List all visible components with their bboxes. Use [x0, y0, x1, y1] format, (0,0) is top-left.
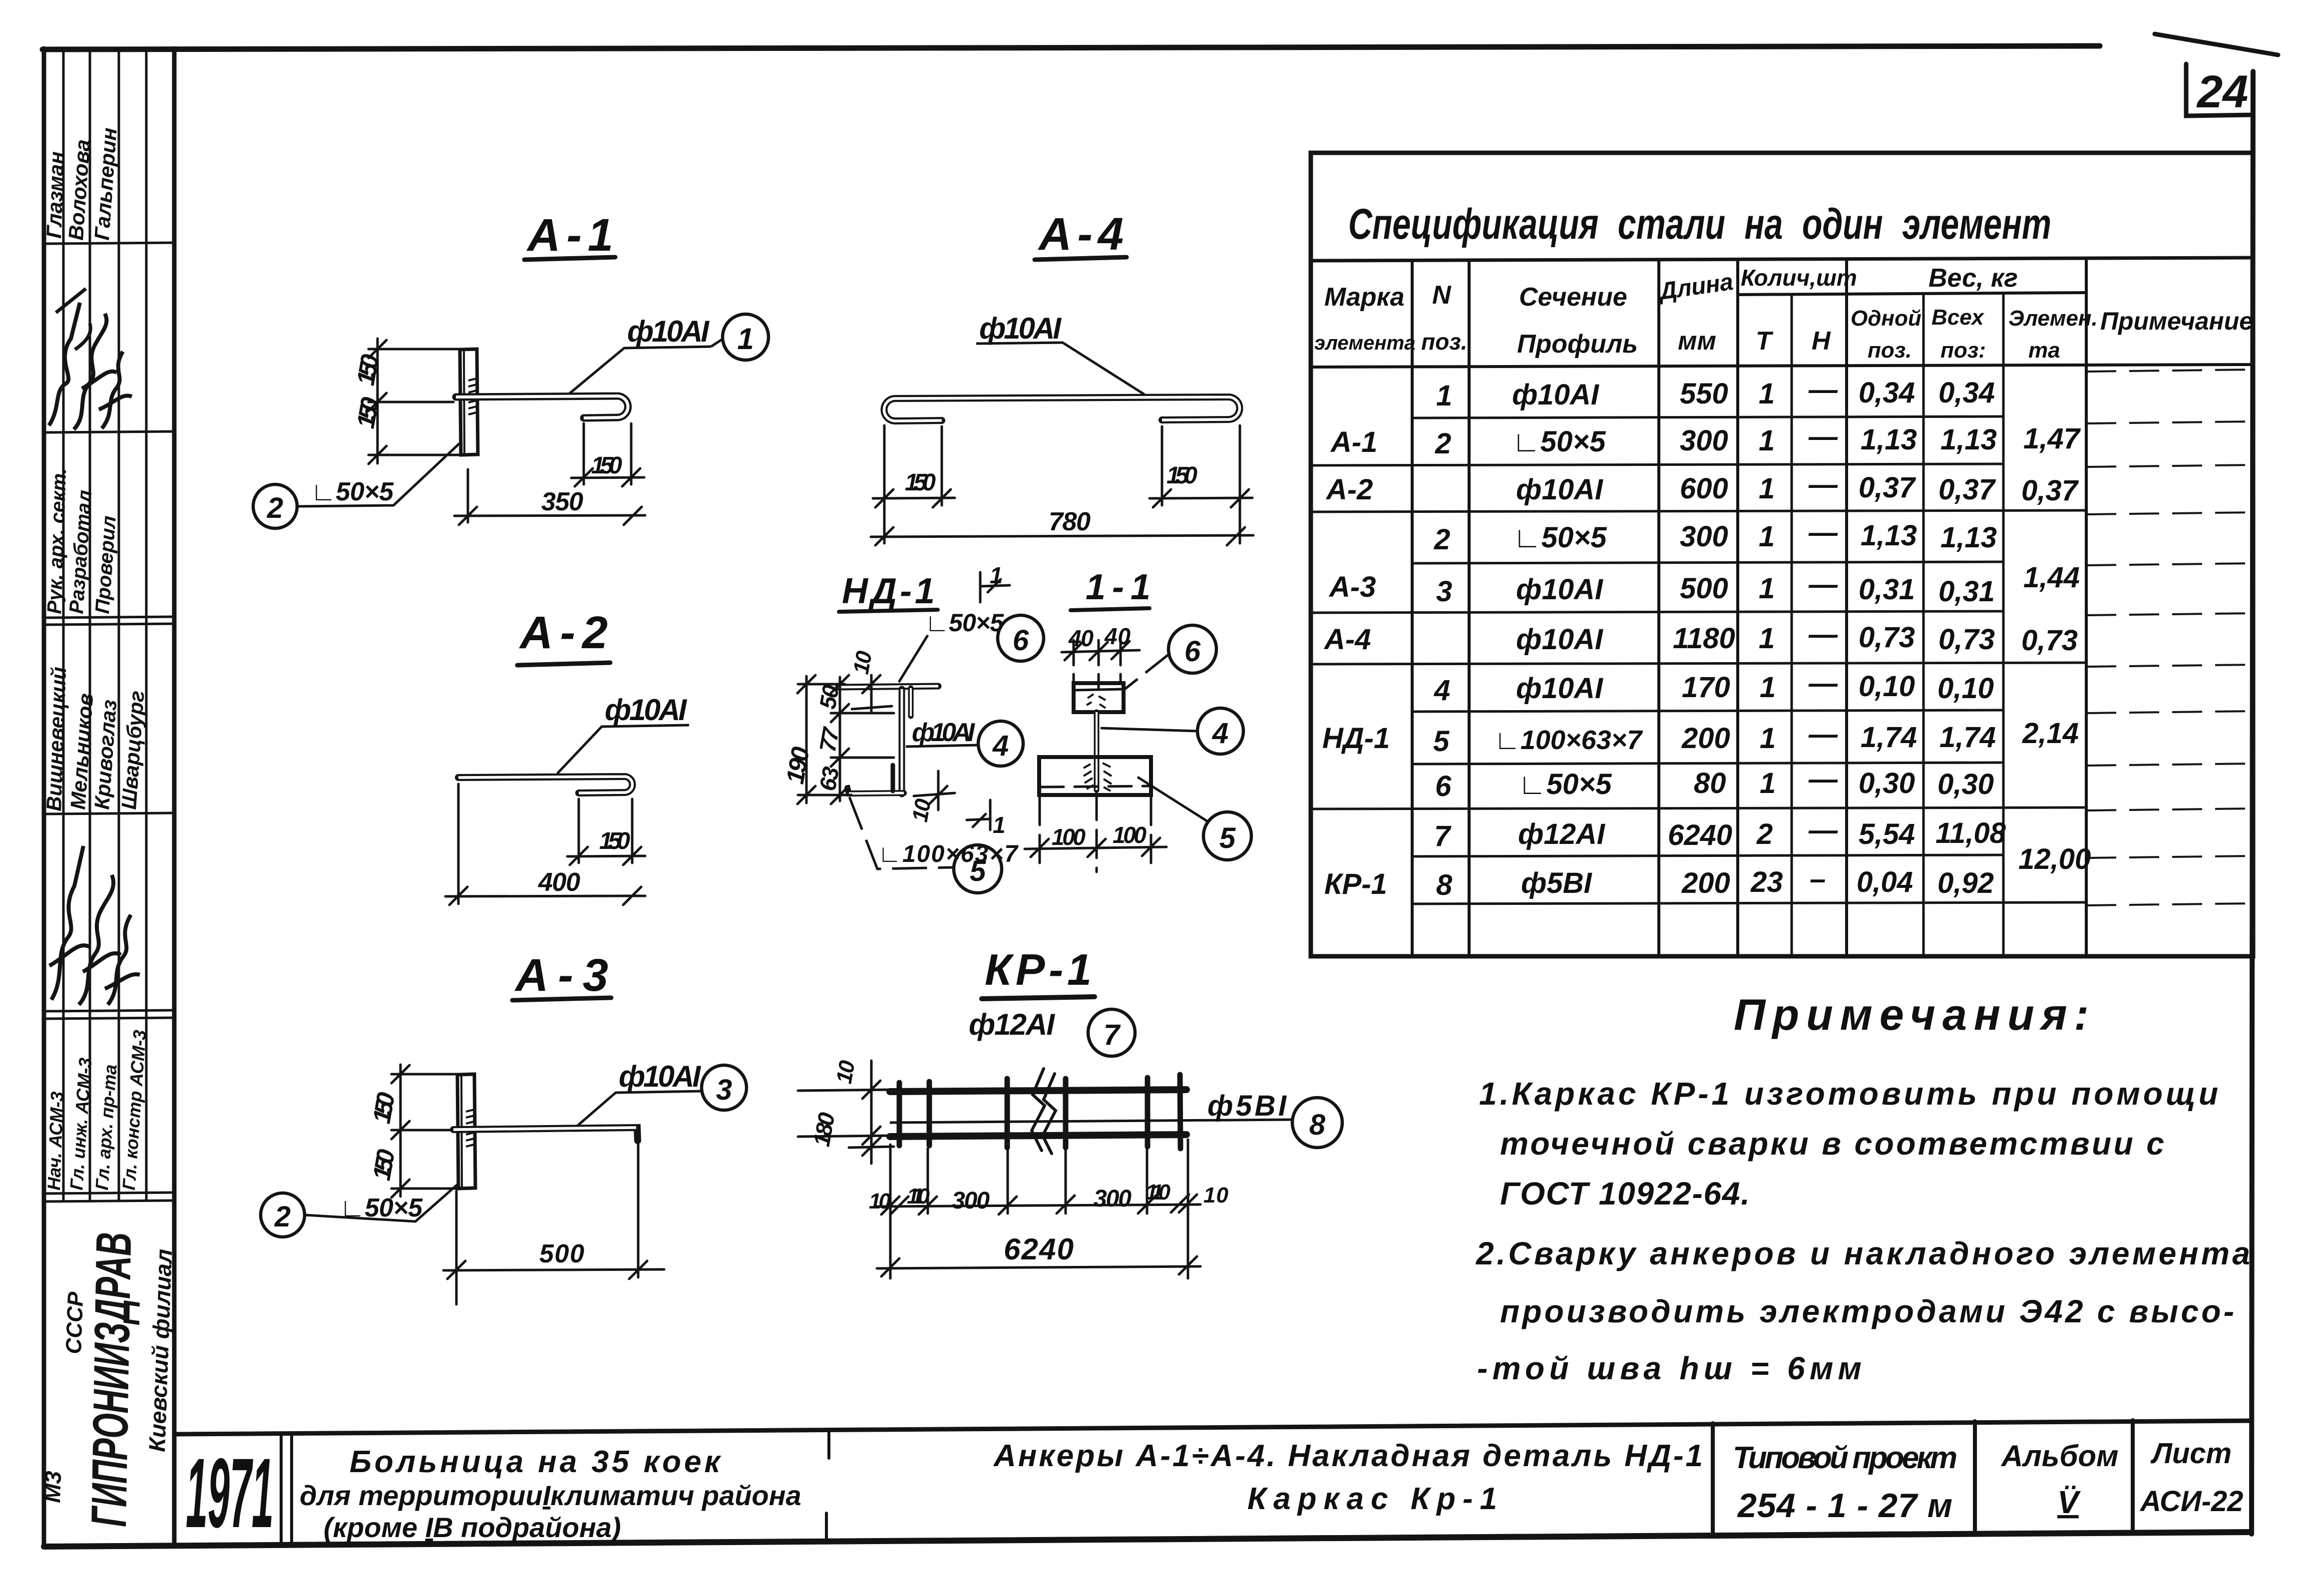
svg-text:100: 100 [1113, 822, 1147, 848]
svg-text:Спецификация стали на один эле: Спецификация стали на один элемент [1348, 200, 2051, 248]
svg-text:ф10АІ: ф10АІ [605, 693, 687, 727]
svg-text:0,37: 0,37 [1938, 473, 1996, 506]
svg-text:точечной сварки в соответст: точечной сварки в соответствии с [1500, 1126, 2164, 1162]
A-4 overall dimension 780 [871, 527, 1253, 545]
svg-text:350: 350 [541, 487, 583, 516]
sheet right border [2252, 71, 2253, 1534]
svg-text:10: 10 [908, 797, 936, 823]
svg-text:10: 10 [1203, 1183, 1229, 1207]
svg-text:6: 6 [1184, 635, 1201, 668]
svg-text:40: 40 [1104, 623, 1131, 649]
svg-text:200: 200 [1681, 867, 1730, 899]
KR-1 break symbol [1032, 1069, 1056, 1154]
svg-text:1,13: 1,13 [1940, 521, 1997, 554]
svg-text:Лист: Лист [2150, 1437, 2232, 1470]
1-1 bottom dimension 100 100 [1025, 792, 1166, 872]
svg-text:300: 300 [952, 1188, 990, 1214]
svg-text:—: — [1808, 718, 1838, 751]
ND-1 left outer dimension 190 [797, 675, 851, 804]
svg-text:—: — [1808, 618, 1838, 651]
sheet top border [42, 46, 2100, 49]
A-1 angle plate pos.2 [460, 349, 478, 455]
svg-text:500: 500 [539, 1239, 584, 1268]
left stamp column lines [44, 48, 174, 1201]
svg-text:1180: 1180 [1673, 622, 1735, 655]
svg-text:ф5ВІ: ф5ВІ [1207, 1090, 1287, 1122]
A-2 overall dimension 400 [445, 784, 645, 905]
svg-text:ф12АІ: ф12АІ [1518, 818, 1606, 850]
svg-text:7: 7 [1434, 820, 1452, 852]
svg-text:150: 150 [905, 469, 936, 496]
svg-text:10: 10 [869, 1189, 891, 1213]
ND-1 section mark top [980, 572, 1010, 602]
svg-text:2: 2 [1434, 523, 1450, 556]
A-4 right hook dimension 150 [1150, 425, 1252, 543]
svg-text:ф10АІ: ф10АІ [979, 312, 1062, 345]
svg-text:550: 550 [1680, 378, 1728, 410]
svg-text:0,73: 0,73 [2021, 624, 2078, 657]
svg-text:3: 3 [1436, 575, 1452, 608]
svg-text:1.Каркас КР-1 изготовить пр: 1.Каркас КР-1 изготовить при помощи [1479, 1076, 2218, 1112]
svg-text:0,37: 0,37 [1859, 471, 1917, 504]
1-1 position circle 5 [1203, 812, 1251, 860]
svg-text:ГОСТ 10922-64.: ГОСТ 10922-64. [1500, 1176, 1750, 1211]
svg-text:—: — [1808, 568, 1838, 601]
svg-text:10: 10 [832, 1058, 860, 1085]
svg-text:∟50×5: ∟50×5 [925, 609, 1004, 637]
title block divider Albom/List [2131, 1420, 2135, 1532]
svg-text:0,31: 0,31 [1859, 573, 1915, 606]
svg-text:150: 150 [352, 395, 384, 430]
svg-text:150: 150 [599, 828, 630, 854]
page number box 24 [2186, 64, 2253, 116]
KR-1 title underline [982, 997, 1095, 999]
svg-text:А-3: А-3 [1328, 571, 1376, 603]
sheet top-right paper edge slant [2155, 34, 2278, 55]
svg-text:А-2: А-2 [519, 607, 608, 658]
table title band bottom line [1311, 258, 2253, 261]
svg-text:Нач. АСМ-3: Нач. АСМ-3 [43, 1091, 67, 1191]
svg-text:150: 150 [368, 1147, 400, 1183]
svg-text:элемента: элемента [1314, 332, 1415, 354]
A-1 position circle 1 [723, 314, 768, 360]
svg-text:А-1: А-1 [1330, 426, 1377, 458]
A-1 weld hatch at rod joint [468, 379, 476, 414]
svg-text:40: 40 [1068, 625, 1094, 651]
KR-1 left dimension 10/180 [798, 1061, 894, 1164]
svg-text:2.Сварку анкеров и накладно: 2.Сварку анкеров и накладного элемента [1476, 1235, 2250, 1271]
stamp signatures block2 [49, 846, 140, 1005]
KR-1 position circle 7 [1088, 1009, 1135, 1056]
A-3 leader circle2 to plate [305, 1185, 457, 1221]
1-1 bottom plate pos.5 [1039, 757, 1151, 795]
svg-text:А-3: А-3 [514, 950, 608, 1001]
ND-1 top small dimension 10 [852, 675, 892, 711]
KR-1 overall dimension 6240 [877, 1256, 1200, 1276]
svg-text:(кроме ІВ подрайона): (кроме ІВ подрайона) [324, 1512, 621, 1543]
svg-text:поз.: поз. [1868, 338, 1912, 363]
svg-text:Всех: Всех [1931, 305, 1984, 330]
svg-text:ф10АІ: ф10АІ [1516, 573, 1604, 606]
KR-1 position circle 8 [1292, 1098, 1342, 1148]
svg-text:та: та [2028, 338, 2060, 363]
svg-text:1971: 1971 [186, 1438, 274, 1548]
svg-text:0,34: 0,34 [1938, 377, 1995, 409]
svg-text:0,30: 0,30 [1937, 768, 1994, 800]
ND-1 position circle 4 [978, 721, 1023, 766]
svg-text:N: N [1432, 281, 1452, 310]
svg-text:Анкеры А-1÷А-4. Накладная: Анкеры А-1÷А-4. Накладная деталь НД-1 [993, 1439, 1703, 1473]
1-1 leader circle 5 to plate [1138, 777, 1208, 822]
svg-text:150: 150 [352, 352, 384, 388]
svg-text:1,13: 1,13 [1861, 519, 1917, 552]
svg-text:V̈: V̈ [2057, 1484, 2081, 1520]
svg-text:5: 5 [970, 855, 986, 887]
svg-text:–: – [1810, 863, 1826, 895]
1-1 leader circle 6 to plate [1124, 654, 1169, 690]
1-1 position circle 6 [1168, 625, 1216, 673]
svg-text:∟50×5: ∟50×5 [1518, 768, 1612, 800]
svg-text:∟50×5: ∟50×5 [1513, 521, 1607, 554]
table column line H/Odnoy [1845, 261, 1848, 956]
svg-text:50: 50 [814, 683, 844, 711]
table column line Vsekh/Elem [2002, 295, 2005, 956]
svg-text:780: 780 [1049, 507, 1091, 536]
svg-text:150: 150 [368, 1090, 400, 1126]
ND-1 top angle vertical stub [908, 688, 914, 716]
svg-text:НД-1: НД-1 [1322, 722, 1390, 755]
KR-1 bottom chord bar f12 [890, 1135, 1186, 1137]
svg-text:11,08: 11,08 [1935, 817, 2006, 849]
A-2 title underline [517, 663, 610, 665]
A-1 title underline [524, 257, 615, 260]
A-3 position circle 2 with label [261, 1193, 305, 1237]
svg-text:80: 80 [1694, 767, 1726, 799]
svg-text:110: 110 [907, 1184, 930, 1208]
svg-text:110: 110 [1146, 1180, 1171, 1204]
KR-1 thin wire line to pos.8 [890, 1120, 1293, 1123]
svg-text:2,14: 2,14 [2022, 717, 2079, 750]
ND-1 leader label to flange [899, 635, 928, 682]
svg-text:—: — [1808, 420, 1838, 453]
svg-text:1: 1 [1760, 767, 1776, 799]
svg-text:1: 1 [1759, 622, 1775, 655]
svg-text:АСИ-22: АСИ-22 [2139, 1485, 2243, 1518]
svg-text:А-4: А-4 [1323, 623, 1371, 656]
A-2 label underline and leader [557, 725, 689, 774]
svg-text:300: 300 [1680, 424, 1728, 457]
svg-text:—: — [1808, 468, 1838, 501]
svg-text:∟100×63×7: ∟100×63×7 [1494, 725, 1643, 755]
svg-text:ф10АІ: ф10АІ [912, 718, 976, 747]
svg-text:200: 200 [1681, 722, 1730, 755]
KR-1 top chord bar f12 [890, 1090, 1186, 1092]
svg-text:поз:: поз: [1940, 338, 1986, 363]
svg-text:1: 1 [1759, 520, 1775, 553]
svg-text:А-2: А-2 [1325, 473, 1373, 506]
svg-text:150: 150 [591, 452, 622, 479]
A-4 left hook dimension 150 [873, 425, 955, 543]
svg-text:1: 1 [1759, 472, 1775, 505]
svg-text:Примечания:: Примечания: [1734, 990, 2096, 1039]
1-1 title underline [1071, 608, 1150, 610]
1-1 top plate pos.6 [1074, 683, 1124, 712]
svg-text:5: 5 [1219, 822, 1236, 854]
svg-text:0,04: 0,04 [1857, 866, 1913, 898]
svg-text:500: 500 [1680, 572, 1728, 605]
svg-text:1,47: 1,47 [2023, 422, 2081, 455]
A-1 anchor rod pos.1 with hook [456, 396, 628, 418]
svg-text:1-1: 1-1 [1086, 567, 1151, 607]
table header texts [1314, 264, 2253, 363]
table column line T/H [1791, 295, 1793, 956]
A-1 leader from label to circle [711, 339, 723, 347]
spec table outer frame [1311, 153, 2253, 956]
svg-text:1,13: 1,13 [1940, 423, 1997, 456]
ND-1 bottom angle vertical leg [891, 765, 895, 791]
ND-1 vertical rod (pos.4) [899, 689, 905, 794]
svg-text:23: 23 [1750, 866, 1783, 898]
svg-text:Элемен.: Элемен. [2008, 306, 2098, 331]
stamp row6 roles rotated [43, 1029, 150, 1191]
svg-text:1: 1 [1759, 424, 1775, 457]
svg-text:1,44: 1,44 [2023, 561, 2080, 594]
svg-text:-той шва hш = 6мм: -той шва hш = 6мм [1477, 1350, 1862, 1386]
svg-text:ГИПРОНИИЗДРАВ: ГИПРОНИИЗДРАВ [81, 1232, 142, 1528]
A-3 anchor rod straight [453, 1128, 638, 1141]
svg-text:—: — [1808, 667, 1838, 700]
A-1 left dimension line 150/150 [369, 339, 464, 464]
table body texts [1322, 374, 2091, 901]
svg-text:4: 4 [992, 730, 1009, 762]
svg-text:Марка: Марка [1324, 283, 1405, 312]
table primechanie column dashed row lines [2086, 370, 2253, 905]
svg-text:3: 3 [716, 1074, 732, 1106]
svg-text:0,31: 0,31 [1938, 575, 1995, 608]
svg-text:—: — [1808, 763, 1838, 796]
svg-text:10: 10 [849, 649, 877, 676]
svg-text:4: 4 [1212, 717, 1228, 750]
table row lines [1412, 416, 2003, 418]
svg-text:12,00: 12,00 [2018, 843, 2091, 875]
svg-text:ф10АІ: ф10АІ [1516, 473, 1604, 506]
sheet bottom border [44, 1532, 2250, 1547]
table column line Dlina [1736, 261, 1739, 956]
left stamp row lines [44, 243, 174, 244]
svg-text:2: 2 [1435, 427, 1451, 460]
title block divider Tipovoy/Albom [1973, 1421, 1977, 1533]
table column line Odnoy/Vsekh [1922, 295, 1925, 956]
ND-1 section mark bottom [967, 800, 990, 830]
A-1 leader circle2 to plate [297, 443, 459, 506]
title block divider before Tipovoy [1711, 1423, 1715, 1534]
svg-text:1: 1 [1759, 572, 1775, 605]
svg-text:ф10АІ: ф10АІ [1512, 379, 1600, 411]
svg-text:М3: М3 [39, 1470, 66, 1503]
svg-text:2: 2 [267, 492, 283, 524]
A-1 hook dimension 150 [571, 423, 644, 486]
svg-text:ф10АІ: ф10АІ [627, 315, 710, 348]
svg-text:А-1: А-1 [526, 210, 613, 261]
ND-1 top flange (angle 50x5) [838, 686, 938, 687]
svg-text:—: — [1808, 814, 1838, 846]
stamp row1 names rotated [42, 127, 121, 241]
svg-text:6240: 6240 [1668, 819, 1732, 851]
title block divider after 1971 [280, 1434, 283, 1545]
svg-text:Профиль: Профиль [1517, 330, 1638, 359]
svg-text:1: 1 [1760, 722, 1776, 755]
svg-text:Сечение: Сечение [1519, 283, 1627, 312]
1-1 rod weld hatches [1084, 694, 1112, 791]
stamp row3 roles rotated [43, 467, 120, 614]
ND-1 leader rod to circle 4 [906, 745, 978, 747]
svg-text:для территорииІклиматич райо: для территорииІклиматич района [300, 1480, 801, 1511]
svg-text:1: 1 [1436, 380, 1452, 412]
svg-text:170: 170 [1682, 671, 1730, 704]
1-1 top dimension 40 40 [1062, 640, 1140, 689]
svg-text:6: 6 [1013, 624, 1029, 657]
A-1 overall dimension 350 [454, 469, 645, 525]
svg-text:НД-1: НД-1 [842, 571, 935, 611]
bottom title block frame [174, 1420, 2252, 1545]
svg-text:Колич,шт: Колич,шт [1741, 265, 1857, 291]
svg-text:2: 2 [274, 1200, 291, 1233]
table column line Sechenie [1657, 261, 1660, 956]
A-3 position circle 3 [702, 1065, 747, 1110]
svg-text:1,74: 1,74 [1939, 721, 1996, 754]
svg-text:0,30: 0,30 [1859, 767, 1915, 799]
ND-1 leader to circle 5 [849, 797, 953, 869]
sheet left border [42, 48, 46, 1547]
A-4 anchor rod with two hooks [884, 397, 1239, 421]
svg-text:300: 300 [1094, 1186, 1132, 1212]
svg-text:1: 1 [1760, 671, 1776, 704]
svg-text:ф10АІ: ф10АІ [1516, 623, 1604, 656]
svg-text:Больница на 35 коек: Больница на 35 коек [350, 1445, 723, 1479]
svg-text:0,73: 0,73 [1938, 623, 1995, 656]
svg-text:поз.: поз. [1421, 329, 1467, 355]
A-3 title underline [512, 998, 611, 1000]
A-4 label underline and leader to rod [976, 343, 1145, 395]
svg-text:мм: мм [1678, 327, 1716, 356]
stamp row4 names rotated [42, 666, 149, 811]
svg-text:Альбом: Альбом [2000, 1439, 2118, 1473]
A-3 angle plate pos.2 [457, 1074, 475, 1189]
table column line Marka [1411, 261, 1414, 956]
ND-1 bottom small dimension 10 [914, 771, 955, 810]
ND-1 left inner dimension 50/77/63 [831, 675, 894, 804]
A-2 anchor rod with hook [458, 777, 632, 793]
svg-text:600: 600 [1680, 472, 1728, 505]
svg-text:300: 300 [1680, 520, 1728, 553]
svg-text:ф10АІ: ф10АІ [619, 1060, 701, 1093]
svg-text:24: 24 [2196, 66, 2248, 117]
svg-text:0,73: 0,73 [1859, 621, 1915, 654]
table column line N poz [1468, 261, 1471, 956]
A-3 label underline and leader to rod [575, 1091, 702, 1128]
KR-1 lower dimension row extension lines [877, 1140, 1200, 1278]
svg-text:0,92: 0,92 [1937, 867, 1994, 899]
ND-1 title underline [839, 610, 938, 612]
svg-text:∟50×5: ∟50×5 [311, 477, 394, 506]
svg-text:5,54: 5,54 [1859, 818, 1915, 850]
A-3 overall dimension 500 [443, 1145, 664, 1304]
svg-text:0,34: 0,34 [1859, 377, 1915, 409]
svg-text:6: 6 [1435, 770, 1452, 802]
svg-text:2: 2 [1756, 818, 1773, 850]
svg-text:8: 8 [1436, 869, 1453, 901]
A-4 title underline [1035, 257, 1127, 260]
table subheader line under Kolich and Ves [1738, 293, 2086, 295]
svg-text:0,10: 0,10 [1937, 672, 1994, 705]
svg-text:1,13: 1,13 [1861, 423, 1917, 456]
ND-1 position circle 6 [998, 615, 1044, 661]
1-1 position circle 4 [1197, 708, 1243, 754]
main frame left line [172, 48, 177, 1546]
svg-text:1: 1 [737, 322, 754, 356]
svg-text:4: 4 [1434, 674, 1450, 707]
title block divider after project name (tick marks) [827, 1429, 830, 1458]
svg-text:ф10АІ: ф10АІ [1516, 672, 1604, 705]
table column line Elem/Primech [2085, 261, 2088, 956]
svg-text:1: 1 [990, 562, 1003, 588]
svg-text:8: 8 [1309, 1109, 1326, 1141]
svg-text:∟50×5: ∟50×5 [1512, 425, 1606, 458]
ND-1 position circle 5 [954, 845, 1002, 893]
svg-text:254 - 1 - 27 м: 254 - 1 - 27 м [1737, 1487, 1952, 1525]
svg-text:—: — [1808, 516, 1838, 549]
svg-text:1,74: 1,74 [1861, 721, 1917, 754]
svg-text:Вес, кг: Вес, кг [1928, 264, 2018, 293]
svg-text:КР-1: КР-1 [985, 945, 1092, 994]
svg-text:0,37: 0,37 [2021, 474, 2079, 507]
A-1 position circle 2 with label L50x5 [253, 484, 297, 528]
svg-text:ф12АІ: ф12АІ [969, 1008, 1055, 1041]
svg-text:150: 150 [1166, 462, 1197, 489]
svg-text:Примечание: Примечание [2100, 307, 2253, 335]
svg-text:63: 63 [814, 765, 844, 793]
1-1 vertical rod pos.4 [1094, 712, 1100, 790]
svg-text:Т: Т [1756, 327, 1774, 356]
svg-text:производить электродами Э42: производить электродами Э42 с высо- [1500, 1293, 2234, 1329]
A-2 hook dimension 150 [567, 799, 645, 865]
svg-text:КР-1: КР-1 [1324, 868, 1387, 900]
ND-1 bottom angle leg (100x63x7) [847, 788, 904, 794]
svg-text:∟50×5: ∟50×5 [340, 1194, 423, 1222]
A-3 weld hatch at rod joint [466, 1110, 474, 1147]
svg-text:400: 400 [538, 868, 580, 897]
svg-text:А-4: А-4 [1038, 209, 1124, 260]
A-3 left dimension line 150/150 [391, 1065, 461, 1197]
KR-1 cross rungs f5 [899, 1075, 1180, 1149]
svg-text:7: 7 [1104, 1019, 1121, 1051]
svg-text:Типовой проект: Типовой проект [1733, 1441, 1957, 1475]
svg-text:ф5ВІ: ф5ВІ [1521, 867, 1592, 899]
A-1 label underline and leader to rod [565, 347, 711, 397]
svg-text:—: — [1808, 374, 1838, 406]
svg-text:1: 1 [993, 812, 1006, 838]
svg-text:Н: Н [1812, 327, 1831, 356]
stamp signatures block1 [49, 289, 132, 429]
1-1 leader rod to circle 4 [1101, 728, 1197, 731]
svg-text:Одной: Одной [1851, 306, 1921, 331]
svg-text:100: 100 [1052, 824, 1086, 850]
table header bottom line [1311, 365, 2253, 367]
svg-text:0,10: 0,10 [1859, 670, 1915, 703]
svg-text:5: 5 [1433, 725, 1450, 758]
svg-text:1: 1 [1759, 378, 1775, 410]
